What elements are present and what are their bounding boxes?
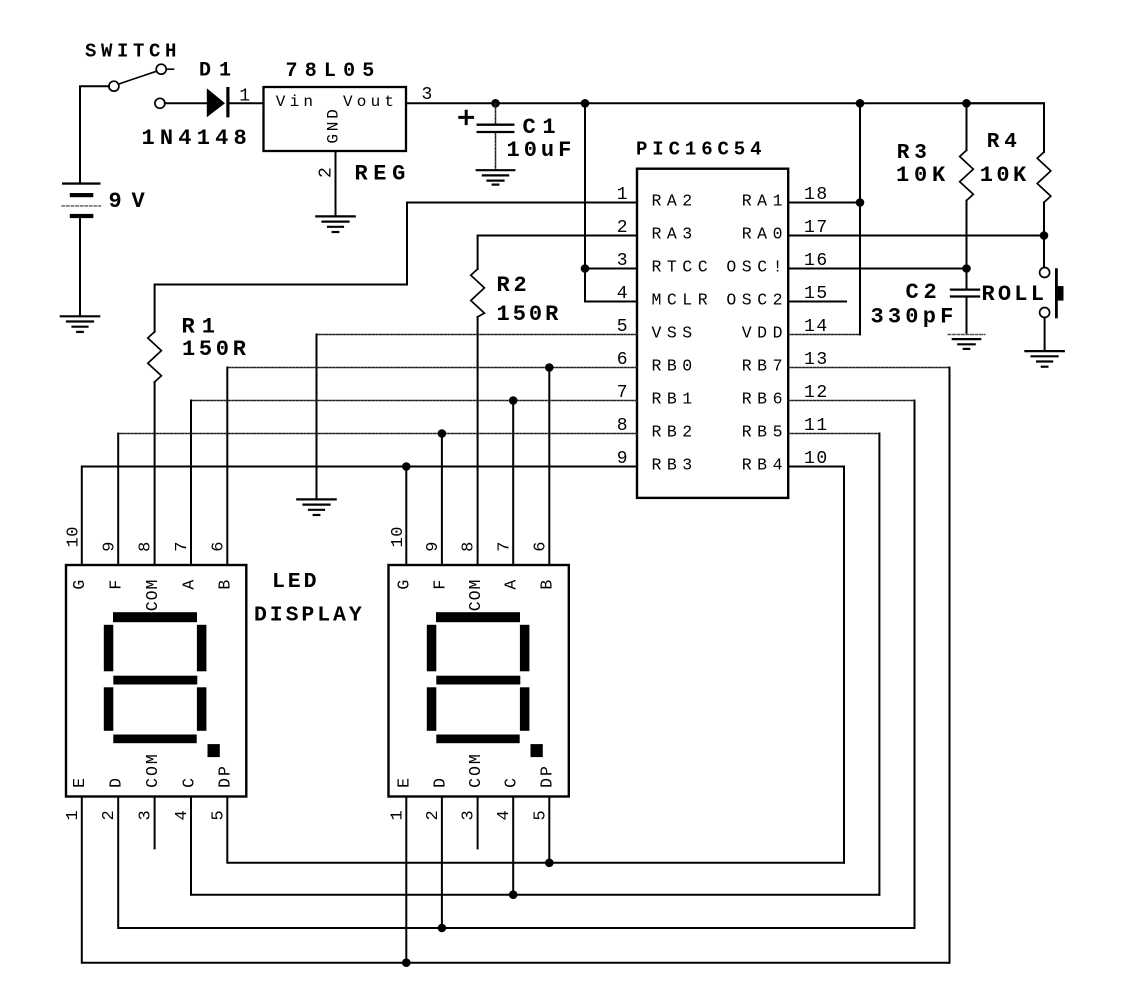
wire pin 12 RB6 (dotted): [788, 400, 914, 402]
wire DS2 COM stub: [477, 797, 479, 849]
svg-text:2: 2: [617, 218, 628, 238]
svg-text:C2: C2: [906, 280, 942, 305]
node junction DS2 D on D bus: [438, 924, 447, 933]
node junction DS2 E on E bus: [402, 958, 411, 967]
svg-text:OSC!: OSC!: [726, 258, 788, 277]
DS2 segment b (top-right): [520, 625, 530, 672]
svg-text:G: G: [395, 580, 414, 590]
ground (regulator): [316, 216, 354, 232]
wire RB4 down right side: [843, 467, 845, 863]
DS2 top pin numbers (rotated): [389, 526, 550, 552]
svg-text:DISPLAY: DISPLAY: [254, 603, 365, 627]
DS2 bottom pin numbers (rotated): [388, 810, 550, 820]
wire RB5 down right side: [878, 434, 880, 895]
wire button to ground: [1044, 318, 1046, 351]
wire LED2 G drop: [405, 467, 407, 566]
svg-text:B: B: [216, 580, 235, 590]
svg-text:330pF: 330pF: [871, 304, 958, 329]
IC right pin labels: [726, 192, 788, 475]
svg-text:7: 7: [173, 542, 192, 552]
svg-text:6: 6: [617, 350, 628, 370]
svg-text:2: 2: [317, 167, 337, 178]
pin numbers left side: [617, 185, 628, 469]
svg-text:6: 6: [209, 542, 228, 552]
svg-text:Vout: Vout: [343, 93, 398, 111]
wire +5V rail from regulator output: [406, 102, 1044, 104]
wire DS2 D drop: [441, 797, 443, 929]
wire pin 10 RB4: [788, 466, 844, 468]
capacitor C1 top lead (dotted): [495, 103, 497, 123]
svg-text:150R: 150R: [182, 337, 250, 362]
svg-text:2: 2: [100, 810, 119, 820]
wire DS2 DP drop: [548, 797, 550, 863]
DS1 segment d (bottom): [113, 735, 196, 744]
svg-text:RB3: RB3: [652, 456, 698, 475]
node junction RB2 to LED2 F: [438, 429, 447, 438]
wire pin 8 RB2 (dotted): [118, 433, 637, 435]
svg-text:LED: LED: [272, 570, 319, 594]
svg-text:10K: 10K: [980, 163, 1030, 188]
wire pin 6 RB0 (dotted): [227, 367, 637, 369]
svg-text:9 V: 9 V: [109, 189, 146, 214]
capacitor C2 plates: [951, 290, 979, 297]
wire +5V drop to pins 3-4: [584, 103, 586, 301]
svg-text:A: A: [179, 580, 198, 590]
wire rail corner down to R4: [967, 103, 1045, 152]
svg-text:G: G: [70, 580, 89, 590]
svg-text:D1: D1: [199, 59, 239, 82]
wire pin 5 VSS (dotted): [317, 334, 638, 336]
ground (VSS): [297, 499, 335, 515]
svg-text:RA2: RA2: [652, 192, 698, 211]
wire battery to ground: [79, 218, 81, 316]
node junction RB0 to LED2 B: [545, 363, 554, 372]
wire pin 9 RB3 to LED1 G: [82, 467, 637, 566]
svg-text:VDD: VDD: [742, 324, 788, 343]
svg-text:C: C: [179, 778, 198, 788]
wire diode to regulator, pin 1: [230, 102, 264, 104]
DS1 segment b (top-right): [197, 625, 207, 672]
svg-text:6: 6: [531, 542, 550, 552]
svg-text:RB7: RB7: [742, 357, 788, 376]
svg-text:RB1: RB1: [652, 390, 698, 409]
node junction RB3 to LED2 G: [402, 462, 411, 471]
DS1 segment c (bottom-right): [197, 687, 207, 731]
DS1 bottom segment letters (rotated): [70, 752, 235, 788]
svg-text:R3: R3: [897, 142, 932, 165]
wire pin 2 RA3 to R2: [478, 236, 637, 270]
DS2 segment d (bottom): [436, 735, 519, 744]
svg-text:1: 1: [617, 185, 628, 205]
svg-text:9: 9: [100, 542, 119, 552]
svg-text:SWITCH: SWITCH: [85, 41, 181, 63]
svg-text:OSC2: OSC2: [726, 291, 788, 310]
battery BT1 9V: [62, 182, 101, 218]
wire DS2 C drop: [512, 797, 514, 895]
DS1 segment g (middle): [113, 676, 197, 685]
svg-text:1N4148: 1N4148: [142, 126, 252, 151]
node junction C1 on rail: [491, 99, 500, 108]
svg-text:ROLL: ROLL: [982, 282, 1048, 307]
DS1 segment f (top-left): [104, 625, 114, 672]
DS2 decimal point: [531, 744, 543, 757]
wire RB0 down to LED1 B: [226, 368, 228, 566]
wire pin 15 OSC2 stub: [788, 301, 846, 303]
node junction OSC! / R3 / C2: [962, 264, 971, 273]
svg-text:10: 10: [389, 526, 408, 547]
wire DS1 COM stub: [154, 797, 156, 849]
wire R4 to RA0 junction: [1043, 202, 1045, 235]
LED display DS1 box: [66, 565, 246, 797]
node junction RA1 on +5V drop: [856, 198, 865, 207]
DS2 segment c (bottom-right): [520, 687, 530, 731]
svg-text:5: 5: [209, 810, 228, 820]
DS1 decimal point: [208, 744, 220, 757]
pushbutton ROLL actuator bar: [1055, 268, 1064, 318]
wire pin 16 OSC! to R3 bottom: [788, 268, 966, 270]
node junction rail to pins 3-4 tie: [581, 99, 590, 108]
node junction rail at R3: [962, 99, 971, 108]
svg-text:COM: COM: [143, 752, 162, 788]
svg-text:GND: GND: [325, 106, 343, 143]
wire R3 to OSC! junction: [966, 201, 968, 269]
wire pin 1 RA2 to R1: [155, 203, 637, 332]
DS1 top segment letters (rotated): [70, 579, 235, 612]
svg-text:COM: COM: [466, 752, 485, 788]
wire RB7 down right side: [949, 368, 951, 963]
wire DS2 E drop: [405, 797, 407, 963]
ground (C2) top dashed line: [948, 334, 985, 336]
svg-text:1: 1: [239, 87, 250, 107]
svg-text:3: 3: [617, 251, 628, 271]
svg-text:RB0: RB0: [652, 357, 698, 376]
svg-text:COM: COM: [466, 579, 485, 612]
wire RB1 down to LED1 A: [190, 401, 192, 566]
wire regulator GND pin down: [335, 151, 337, 216]
DS1 seven-segment digit: [104, 612, 220, 757]
capacitor C1 plus sign: [460, 111, 473, 123]
svg-text:R1: R1: [182, 315, 222, 340]
DS1 segment e (bottom-left): [104, 687, 114, 731]
wire VSS down to ground: [316, 335, 318, 499]
svg-text:R2: R2: [497, 273, 531, 298]
wire R1 to LED1 COM: [154, 382, 156, 565]
svg-text:150R: 150R: [497, 302, 562, 327]
svg-text:F: F: [107, 580, 126, 590]
svg-text:E: E: [70, 778, 89, 788]
svg-text:RB4: RB4: [742, 456, 788, 475]
capacitor C1 bottom lead (dotted): [495, 133, 497, 169]
node junction pin 3 tie: [581, 264, 590, 273]
svg-text:REG: REG: [355, 161, 411, 186]
svg-text:9: 9: [617, 449, 628, 469]
DS2 segment a (top): [436, 612, 520, 622]
node junction RA0 / R4 / button: [1040, 231, 1049, 240]
svg-text:E: E: [395, 778, 414, 788]
DS1 bottom pin numbers (rotated): [64, 810, 229, 820]
svg-text:7: 7: [617, 383, 628, 403]
svg-text:3: 3: [422, 85, 433, 105]
svg-text:R4: R4: [987, 131, 1022, 154]
diode D1 1N4148: [207, 87, 230, 117]
pushbutton ROLL top contact: [1040, 268, 1050, 278]
switch S1: [109, 64, 174, 108]
svg-text:1: 1: [388, 810, 407, 820]
wire DP bus: DS1 pin5 to RB4 drop: [227, 797, 844, 863]
svg-text:8: 8: [460, 542, 479, 552]
capacitor C1 plates: [478, 125, 514, 132]
svg-text:5: 5: [531, 810, 550, 820]
svg-text:C: C: [502, 778, 521, 788]
svg-text:8: 8: [137, 542, 156, 552]
svg-text:PIC16C54: PIC16C54: [636, 138, 766, 160]
svg-text:RA3: RA3: [652, 225, 698, 244]
wire LED2 A drop: [512, 401, 514, 566]
svg-text:5: 5: [617, 317, 628, 337]
svg-text:RB5: RB5: [742, 423, 788, 442]
wire pin 18 RA1 stub: [788, 202, 860, 204]
DS2 seven-segment digit: [427, 612, 543, 757]
node junction RB1 to LED2 A: [509, 396, 518, 405]
wire switch to battery top: [80, 86, 109, 182]
svg-text:10K: 10K: [896, 163, 950, 188]
pin numbers right side: [804, 185, 829, 469]
svg-text:10: 10: [65, 526, 84, 547]
DS2 segment e (bottom-left): [427, 687, 437, 731]
ground (button): [1025, 351, 1063, 367]
wire RB2 down to LED1 F: [117, 434, 119, 566]
svg-text:RB6: RB6: [742, 390, 788, 409]
svg-text:3: 3: [460, 810, 479, 820]
svg-text:DP: DP: [538, 764, 557, 788]
svg-text:B: B: [538, 580, 557, 590]
svg-text:C1: C1: [523, 115, 563, 140]
svg-text:8: 8: [617, 416, 628, 436]
svg-text:Vin: Vin: [276, 93, 317, 111]
wire pin 14 VDD (dotted): [788, 334, 860, 336]
wire pin 3 RTCC stub: [585, 268, 637, 270]
node junction rail at x860: [856, 99, 865, 108]
DS2 bottom segment letters (rotated): [395, 752, 557, 788]
svg-text:DP: DP: [216, 764, 235, 788]
svg-text:10uF: 10uF: [507, 138, 576, 163]
wire pin 7 RB1 (dotted): [191, 400, 637, 402]
DS2 segment f (top-left): [427, 625, 437, 672]
wire E bus: DS1 pin1 to RB7 drop: [82, 797, 950, 963]
capacitor C2 top lead: [966, 269, 968, 289]
svg-text:RA0: RA0: [742, 225, 788, 244]
wire switch pole to diode: [165, 102, 207, 104]
battery dashed middle plate: [62, 205, 101, 207]
wire RB6 down right side: [914, 401, 916, 929]
wire rail down to R3: [966, 103, 968, 150]
wire RA0 junction down to button: [1043, 236, 1045, 268]
svg-text:COM: COM: [143, 579, 162, 612]
svg-text:VSS: VSS: [652, 324, 698, 343]
wire LED2 F drop: [441, 434, 443, 566]
node junction DS2 C on C bus: [509, 890, 518, 899]
DS1 segment a (top): [113, 612, 197, 622]
svg-text:MCLR: MCLR: [652, 291, 714, 310]
regulator U2 78L05 box: [264, 87, 407, 151]
node junction DS2 DP on DP bus: [545, 859, 554, 868]
svg-text:F: F: [430, 580, 449, 590]
svg-text:4: 4: [173, 810, 192, 820]
wire C bus: DS1 pin4 to RB5 drop: [191, 797, 879, 895]
wire pin 4 MCLR stub: [585, 301, 637, 303]
wire pin 13 RB7 (dotted): [788, 367, 949, 369]
wire D bus: DS1 pin2 to RB6 drop: [118, 797, 914, 929]
svg-text:D: D: [107, 778, 126, 788]
svg-text:9: 9: [424, 542, 443, 552]
svg-text:D: D: [430, 778, 449, 788]
svg-text:3: 3: [137, 810, 156, 820]
resistor R3 zigzag: [960, 150, 974, 200]
ground (C2): [953, 339, 980, 349]
wire R2 to LED2 COM: [477, 317, 479, 565]
DS1 top pin numbers (rotated): [65, 526, 229, 552]
wire LED2 B drop: [548, 368, 550, 566]
svg-text:78L05: 78L05: [286, 60, 382, 83]
pushbutton ROLL bottom contact: [1040, 308, 1050, 318]
svg-text:4: 4: [617, 284, 628, 304]
wire pin 17 RA0 to R4 bottom: [788, 235, 1044, 237]
LED display DS2 box: [389, 565, 569, 797]
svg-text:RB2: RB2: [652, 423, 698, 442]
wire +5V drop to VDD: [859, 103, 861, 334]
DS2 segment g (middle): [436, 676, 520, 685]
IC U1 PIC16C54 box: [637, 169, 788, 498]
svg-text:RA1: RA1: [742, 192, 788, 211]
svg-text:4: 4: [495, 810, 514, 820]
svg-text:A: A: [502, 580, 521, 590]
svg-text:1: 1: [64, 810, 83, 820]
IC left pin labels: [652, 192, 714, 475]
resistor R1 zigzag: [148, 332, 162, 382]
ground (battery): [61, 316, 99, 332]
svg-text:7: 7: [495, 542, 514, 552]
ground (C1): [477, 170, 515, 184]
resistor R2 zigzag: [471, 269, 485, 317]
svg-text:RTCC: RTCC: [652, 258, 714, 277]
svg-text:2: 2: [424, 810, 443, 820]
wire pin 11 RB5 (dotted): [788, 433, 879, 435]
capacitor C2 bottom lead: [966, 298, 968, 335]
resistor R4 zigzag: [1037, 152, 1051, 202]
DS2 top segment letters (rotated): [395, 579, 557, 612]
